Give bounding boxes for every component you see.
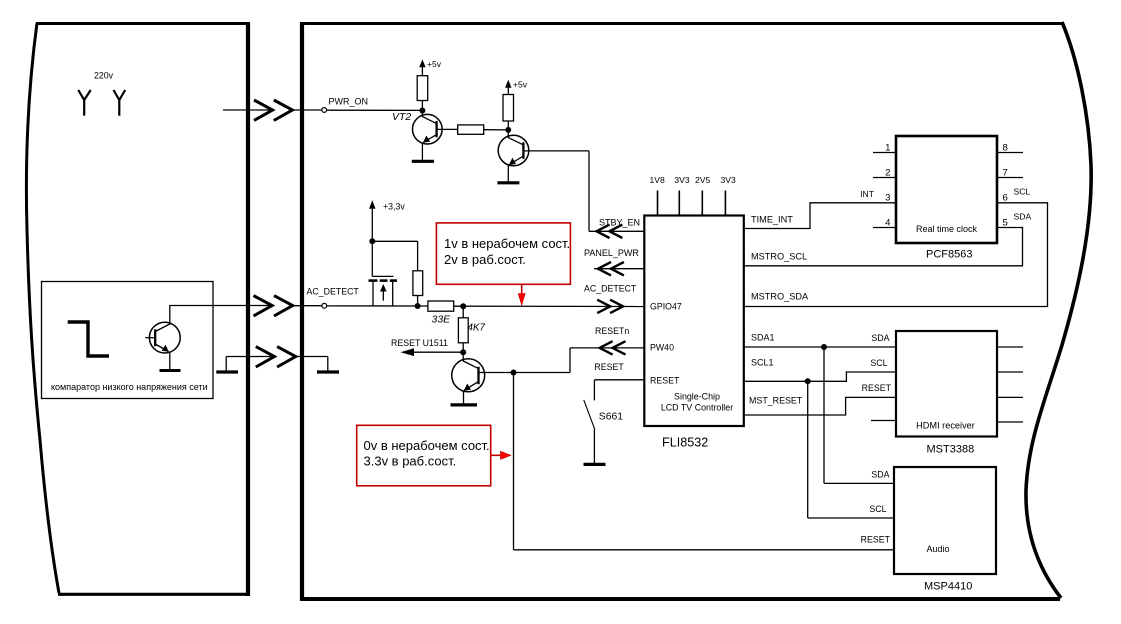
svg-text:SDA: SDA — [1014, 212, 1032, 222]
pin 6 SCL — [1003, 187, 1031, 204]
arrow chevrons row3 — [256, 347, 296, 367]
node Q2 collector — [505, 127, 511, 133]
ground (VT2) — [412, 160, 434, 163]
resistor 4K7 — [458, 318, 468, 343]
wire 33E to chip GPIO47 — [454, 305, 645, 307]
wire SDA1 to MST3388 — [744, 346, 896, 348]
arrow chevrons PANEL_PWR — [598, 262, 624, 275]
mains plug Y2 — [114, 90, 126, 116]
svg-text:INT: INT — [860, 189, 875, 199]
svg-text:7: 7 — [1003, 168, 1008, 179]
IC PCF8563 — [896, 136, 997, 243]
wire AC_DETECT to 33E — [327, 305, 428, 307]
arrow RESET U1511 (points left) — [401, 348, 464, 356]
pin 1 — [873, 143, 896, 154]
wire SCL1 to MST3388 — [744, 372, 896, 381]
wire PWR_ON to VT2 collector node — [327, 109, 423, 111]
svg-text:компаратор низкого напряжения: компаратор низкого напряжения сети — [51, 382, 208, 392]
node SCL branch — [805, 378, 811, 384]
svg-text:2V5: 2V5 — [695, 175, 711, 185]
wire ground link row3 right — [296, 356, 328, 358]
terminal node AC_DETECT — [322, 303, 327, 308]
node at VT2 collector — [419, 108, 425, 114]
ground (row3 right) — [317, 357, 339, 373]
svg-text:HDMI receiver: HDMI receiver — [916, 421, 975, 431]
wire AC_DETECT left crossing — [170, 305, 272, 307]
wire to AC_DETECT terminal — [293, 305, 322, 307]
pin 3 INT — [860, 189, 890, 204]
arrow chevrons STBY_EN — [597, 225, 623, 238]
svg-text:MST3388: MST3388 — [927, 444, 975, 456]
ground (comparator) — [160, 369, 181, 372]
mosfet Q3 (gate bars) — [369, 276, 397, 306]
wire U1511 emitter down — [463, 391, 465, 405]
wire gate lead down — [371, 241, 373, 276]
svg-text:TIME_INT: TIME_INT — [751, 215, 793, 225]
svg-text:AC_DETECT: AC_DETECT — [584, 284, 637, 294]
svg-text:VT2: VT2 — [392, 111, 411, 123]
svg-text:SCL1: SCL1 — [751, 358, 774, 368]
svg-text:SCL: SCL — [1014, 187, 1031, 197]
pin 4 — [873, 218, 896, 229]
svg-text:MSP4410: MSP4410 — [924, 581, 972, 593]
wire branch down to resistor — [417, 241, 419, 270]
svg-text:SCL: SCL — [869, 504, 886, 514]
pin 2 — [873, 168, 896, 179]
arrow chevrons RESETn — [600, 341, 626, 354]
wire resistor2 to node — [507, 121, 509, 130]
node +3,3v branch — [369, 238, 375, 244]
resistor (pull-up AC_DETECT) — [413, 271, 423, 296]
svg-text:RESET U1511: RESET U1511 — [391, 338, 448, 348]
wire MST_RESET to MST3388 — [744, 397, 896, 415]
svg-text:33E: 33E — [432, 314, 452, 326]
annotation red arrow 1 (down) — [518, 284, 525, 305]
wire VT2 emitter down — [421, 143, 423, 161]
svg-text:PWR_ON: PWR_ON — [329, 97, 369, 107]
wire resistor to Q2 collector node — [484, 129, 509, 131]
svg-text:0v в нерабочем сост.: 0v в нерабочем сост. — [364, 438, 490, 453]
node U1511 base — [511, 370, 517, 376]
svg-text:SDA: SDA — [871, 470, 889, 480]
svg-text:RESET: RESET — [650, 376, 680, 386]
annotation red box 1 — [436, 223, 570, 284]
resistor (pull-up at VT2 collector) — [417, 76, 428, 101]
svg-text:RESET: RESET — [862, 383, 892, 393]
ground (U1511) — [451, 403, 478, 406]
pin 8 — [997, 143, 1023, 154]
svg-text:Single-Chip: Single-Chip — [674, 392, 720, 402]
resistor 33E — [428, 301, 454, 311]
wire ground link row3 left — [226, 356, 274, 358]
wire STBY_EN vertical — [588, 151, 590, 231]
svg-text:4: 4 — [885, 218, 891, 229]
svg-text:LCD TV Controller: LCD TV Controller — [661, 403, 733, 413]
svg-text:2: 2 — [885, 168, 890, 179]
node SDA branch — [821, 344, 827, 350]
wire resistor to AC_DETECT node — [417, 296, 419, 307]
terminal node PWR_ON — [322, 108, 327, 113]
IC MSP4410 — [894, 467, 996, 574]
svg-text:STBY_EN: STBY_EN — [599, 218, 640, 228]
svg-text:+5v: +5v — [513, 80, 528, 90]
switch S661 blade — [584, 400, 595, 428]
IC FLI8532 — [644, 216, 744, 427]
wire MSTRO_SCL — [744, 228, 1023, 266]
mains plug Y1 — [78, 90, 90, 116]
pin stub MST3388 right 2 — [997, 371, 1023, 373]
svg-text:5: 5 — [1003, 218, 1008, 229]
svg-text:2v в раб.сост.: 2v в раб.сост. — [444, 252, 526, 267]
comparator transistor emitter wire down — [169, 352, 171, 371]
wire SCL to MSP4410 — [808, 517, 894, 519]
wire SCL branch down — [807, 381, 809, 518]
svg-text:1: 1 — [885, 143, 890, 154]
svg-text:S661: S661 — [599, 412, 623, 423]
svg-text:SDA1: SDA1 — [751, 333, 775, 343]
power +3,3v — [369, 200, 405, 241]
wire switch to ground — [593, 428, 595, 463]
wire +3,3v branch right — [372, 240, 417, 242]
annotation red box 2 — [357, 425, 491, 486]
power +5v (second) — [505, 80, 528, 95]
svg-text:4K7: 4K7 — [468, 323, 486, 334]
pin stub MST3388 right 4 — [997, 421, 1023, 423]
svg-text:1v в нерабочем сост.: 1v в нерабочем сост. — [444, 236, 570, 251]
wire TIME_INT — [744, 203, 896, 229]
svg-text:Audio: Audio — [926, 544, 949, 554]
svg-text:3V3: 3V3 — [721, 175, 737, 185]
resistor (base coupling, horizontal) — [458, 125, 484, 134]
wire RESETn to chip PW40 — [570, 347, 644, 349]
wire RESET down to switch — [593, 380, 595, 401]
wire RESETn riser — [569, 348, 571, 373]
pin 3V3 b — [721, 175, 737, 216]
svg-text:PW40: PW40 — [650, 343, 674, 353]
IC MST3388 — [896, 331, 997, 437]
wire SDA to MSP4410 — [824, 482, 894, 484]
transistor Q2 — [498, 130, 589, 166]
pin stub (MST3388 left 4th) — [871, 420, 896, 422]
arrow chevrons row2 — [254, 296, 293, 316]
wire PANEL_PWR stub — [594, 268, 644, 270]
wire STBY_EN to chip — [589, 230, 644, 232]
svg-text:220v: 220v — [94, 71, 114, 81]
wire SDA branch down — [823, 347, 825, 483]
svg-text:+5v: +5v — [427, 59, 442, 69]
svg-text:RESETn: RESETn — [595, 326, 629, 336]
comparator transistor — [145, 322, 180, 353]
svg-text:3.3v в раб.сост.: 3.3v в раб.сост. — [364, 454, 457, 469]
wire Q2 emitter down — [507, 165, 509, 182]
comparator box — [42, 282, 214, 399]
annotation red arrow 2 (right) — [491, 451, 511, 459]
svg-text:8: 8 — [1003, 143, 1008, 154]
arrow chevrons AC_DETECT into chip — [597, 300, 623, 313]
svg-text:PANEL_PWR: PANEL_PWR — [584, 248, 639, 258]
transistor U1511 — [452, 352, 514, 392]
pin 3V3 a — [674, 175, 690, 216]
resistor (pull-up at Q2 collector) — [503, 95, 514, 122]
pin 5 SDA — [1003, 212, 1032, 229]
wire 4K7 to U1511 collector node — [462, 343, 464, 352]
ground (Q2) — [497, 181, 519, 184]
wire PWR_ON to terminal — [292, 109, 321, 111]
svg-text:Real time clock: Real time clock — [916, 224, 978, 234]
svg-text:GPIO47: GPIO47 — [650, 302, 682, 312]
svg-text:1V8: 1V8 — [650, 175, 666, 185]
ground (S661) — [584, 463, 606, 466]
step waveform — [68, 322, 109, 356]
arrow chevrons row1 — [254, 100, 292, 121]
comparator transistor collector wire up — [169, 305, 171, 325]
wire PWR_ON (left segment) — [223, 109, 272, 111]
wire node to 4K7 — [462, 306, 464, 318]
svg-text:MSTRO_SDA: MSTRO_SDA — [751, 292, 809, 302]
wire RESET chip to switch — [594, 379, 644, 381]
svg-text:RESET: RESET — [861, 535, 891, 545]
wire MSTRO_SDA — [744, 203, 1048, 307]
svg-text:FLI8532: FLI8532 — [662, 436, 708, 450]
pin stub MST3388 right 3 — [997, 396, 1023, 398]
svg-text:PCF8563: PCF8563 — [926, 249, 972, 261]
transistor VT2 — [413, 111, 458, 145]
pin stub MST3388 right 1 — [997, 346, 1023, 348]
svg-text:MST_RESET: MST_RESET — [749, 396, 803, 406]
left board outline (torn-edge power board) — [26, 22, 249, 596]
svg-text:MSTRO_SCL: MSTRO_SCL — [751, 252, 807, 262]
svg-text:RESET: RESET — [594, 362, 624, 372]
svg-text:+3,3v: +3,3v — [383, 202, 405, 212]
pin 2V5 — [695, 175, 711, 216]
node 4K7 top — [460, 303, 466, 309]
node pull-up / wire — [415, 303, 421, 309]
svg-text:3: 3 — [885, 193, 890, 204]
wire long RESET to MSP4410 — [514, 549, 895, 551]
svg-text:3V3: 3V3 — [674, 175, 690, 185]
wire resistor to node — [421, 101, 423, 111]
pin 7 — [997, 168, 1023, 179]
pin 1V8 — [650, 175, 666, 216]
node U1511 collector — [460, 349, 466, 355]
svg-text:SDA: SDA — [871, 333, 889, 343]
svg-text:6: 6 — [1003, 193, 1008, 204]
wire long RESET down from base node — [513, 373, 515, 550]
ground (row3 left) — [216, 357, 238, 373]
main board outline (torn-edge main board) — [300, 22, 1091, 601]
svg-text:AC_DETECT: AC_DETECT — [307, 287, 360, 297]
wire base node to RESETn riser — [514, 372, 571, 374]
svg-text:SCL: SCL — [870, 358, 887, 368]
power +5v (first) — [419, 59, 442, 76]
